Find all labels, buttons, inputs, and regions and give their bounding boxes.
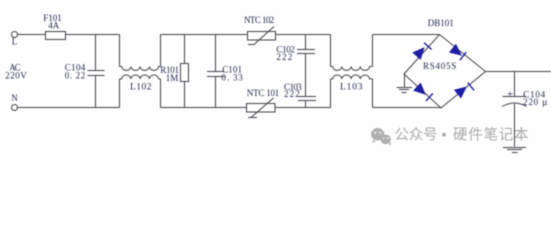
wire bottom: after L103 to bridge bottom vertex (373, 107, 442, 109)
svg-text:NTC 101: NTC 101 (247, 88, 279, 98)
inductor L102 right verticals (160, 35, 162, 108)
svg-text:N: N (11, 93, 18, 103)
svg-text:220 µ: 220 µ (523, 97, 547, 107)
bridge DB101 diamond edges (404, 35, 486, 109)
inductor L102 bottom winding (120, 75, 161, 79)
wire bottom: N terminal to L102 (18, 107, 120, 109)
svg-text:1M: 1M (166, 73, 179, 83)
capacitor C104 0.22 leads (95, 35, 97, 108)
ground at bridge left vertex (397, 74, 413, 93)
svg-text:+: + (507, 88, 513, 100)
svg-text:DB101: DB101 (428, 18, 454, 28)
capacitor C104 220u curved plate (502, 103, 527, 107)
svg-text:0. 22: 0. 22 (65, 71, 86, 81)
capacitor C102 plates (297, 50, 315, 54)
wire top: after L103 to bridge top vertex (373, 34, 440, 36)
capacitor C101 plates (207, 72, 225, 77)
svg-text:L103: L103 (340, 83, 363, 93)
capacitor C104 220u lead bottom (514, 104, 516, 147)
svg-text:L102: L102 (130, 83, 152, 93)
wire bottom: after L102 to NTC101 (161, 107, 247, 109)
inductor L102 top winding (120, 67, 161, 71)
svg-text:RS405S: RS405S (423, 61, 456, 71)
capacitor C103 plates (298, 97, 316, 101)
svg-text:222: 222 (284, 89, 300, 99)
diode D3 bottom-left (414, 83, 433, 101)
ground at output (503, 148, 526, 153)
capacitor C104 220u top plate (503, 96, 527, 98)
output wire from bridge right vertex (486, 71, 551, 73)
resistor R101 leads (184, 35, 186, 108)
svg-text:硬件笔记本: 硬件笔记本 (453, 127, 529, 144)
svg-text:0. 33: 0. 33 (222, 72, 244, 82)
watermark wechat icon (371, 128, 391, 146)
svg-text:NTC 102: NTC 102 (244, 15, 274, 25)
terminal N (12, 105, 18, 111)
wire top: L terminal to L102 (18, 34, 120, 36)
wire top: after L102 to NTC102 (161, 34, 248, 36)
svg-text:4A: 4A (48, 21, 60, 31)
capacitor C104 220u lead top (514, 72, 516, 97)
svg-text:222: 222 (276, 52, 292, 62)
inductor L103 left verticals (330, 35, 332, 108)
capacitor C101 leads (215, 35, 217, 108)
diode D4 bottom-right (455, 83, 474, 98)
inductor L103 top winding (331, 67, 373, 71)
svg-text:L: L (12, 37, 17, 47)
wire bottom: NTC101 to L103 (275, 107, 331, 109)
wire top: NTC102 to L103 (276, 34, 331, 36)
terminal L (12, 32, 18, 38)
inductor L103 right verticals (372, 35, 374, 108)
thermistor NTC102 body (248, 32, 276, 41)
thermistor NTC101 diagonal (248, 98, 274, 118)
inductor L102 left verticals (119, 35, 121, 108)
diode D1 top-left (413, 43, 431, 59)
capacitor C104 plates (88, 71, 105, 76)
diode D2 top-right (450, 45, 466, 61)
svg-text:公众号: 公众号 (395, 127, 438, 144)
thermistor NTC101 body (247, 104, 276, 113)
thermistor NTC102 diagonal (248, 27, 274, 45)
svg-text:220V: 220V (5, 71, 27, 81)
fuse F101 (46, 32, 66, 40)
capacitor C102/C103 leads (305, 35, 307, 108)
resistor R101 body (181, 64, 189, 82)
inductor L103 bottom winding (331, 75, 373, 79)
